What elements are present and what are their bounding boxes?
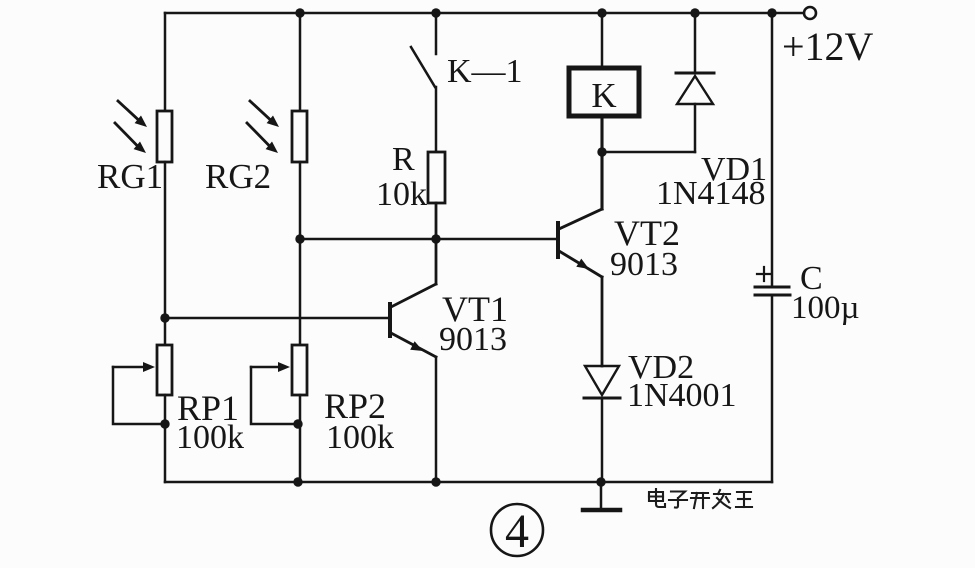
wire switch to R [435,87,438,152]
potentiometer RP1 body [157,345,172,395]
node top switch [431,8,440,17]
light arrow 1 RG1 [118,101,147,127]
node R bottom [431,234,440,243]
node bottom ground [596,477,605,486]
wire RG2 bottom [299,162,302,345]
svg-text:K: K [591,76,616,115]
light arrow 2 RG2 [247,123,278,153]
node top capacitor [767,8,776,17]
wire switch top [435,13,438,54]
svg-text:1N4148: 1N4148 [656,175,766,212]
svg-text:1N4001: 1N4001 [627,377,737,414]
wire VT1 base horizontal [165,317,389,320]
node RP2 wiper [293,419,302,428]
wire node to VD1 [602,151,695,154]
resistor R [428,152,445,203]
transistor VT2 emitter [559,251,602,277]
node bottom VT1 emitter [431,477,440,486]
potentiometer RP2 body [292,345,307,395]
wire VT1 emitter down [435,357,438,482]
diode VD1 [676,13,714,152]
capacitor C plates [755,287,790,295]
wire RG2 top [299,13,302,111]
svg-text:100µ: 100µ [791,290,860,326]
node relay / VD1 [597,147,606,156]
transistor VT2 collector [559,209,602,229]
wire RP1 bottom [164,395,167,482]
node top RG2 [295,8,304,17]
wire RG1 bottom [164,162,167,318]
node RP1 wiper [160,419,169,428]
light arrow 2 RG1 [115,123,146,153]
node bottom RP2 [293,477,302,486]
node top VD1 [690,8,699,17]
svg-text:RG2: RG2 [205,157,271,196]
wire VT2 collector up [600,152,603,209]
potentiometer RP2 wiper arrow [251,362,290,372]
svg-text:10k: 10k [376,176,427,213]
watermark dianzi kaifa wang [649,489,752,508]
diode VD2 [584,366,620,482]
transistor VT1 emitter [391,333,436,357]
capacitor C polarity plus [757,267,771,281]
wire top rail [165,12,772,15]
wire relay bottom [600,118,603,152]
wire RP1 wiper link [113,367,165,424]
svg-text:4: 4 [505,505,529,558]
switch K-1 blade [411,47,435,87]
svg-text:R: R [392,141,415,178]
transistor VT2 base bar [556,223,560,257]
node top relay [597,8,606,17]
svg-text:+12V: +12V [782,24,874,69]
svg-text:RG1: RG1 [97,157,163,196]
ground [583,482,620,510]
transistor VT1 collector [391,284,436,307]
+12V terminal circle [804,7,816,19]
svg-text:100k: 100k [176,419,244,456]
svg-text:K—1: K—1 [447,53,523,90]
svg-text:9013: 9013 [610,246,678,283]
transistor VT1 base bar [388,304,392,336]
node RG1 / VT1 base [160,313,169,322]
light arrow 1 RG2 [250,101,279,127]
wire to +12V terminal [772,12,803,15]
wire RG1 to RP1 [164,318,167,345]
relay K box [569,68,639,116]
wire VT2 base horizontal [300,238,557,241]
capacitor C wire top [771,13,774,286]
svg-text:9013: 9013 [439,321,507,358]
resistor RG1 [157,111,172,162]
wire RP2 bottom [299,395,302,482]
wire VT2 emitter down [601,277,604,366]
figure number circle [491,504,543,556]
wire relay top [601,13,604,66]
potentiometer RP1 wiper arrow [113,362,155,372]
wire R to VT1 collector [435,203,438,284]
node RG2 / VT2 base rail [295,234,304,243]
wire RG1 top [164,13,167,111]
resistor RG2 [292,111,307,162]
wire bottom rail [165,481,772,484]
capacitor C wire bottom [771,295,774,482]
wire RP2 wiper link [251,367,300,424]
svg-text:100k: 100k [326,419,394,456]
